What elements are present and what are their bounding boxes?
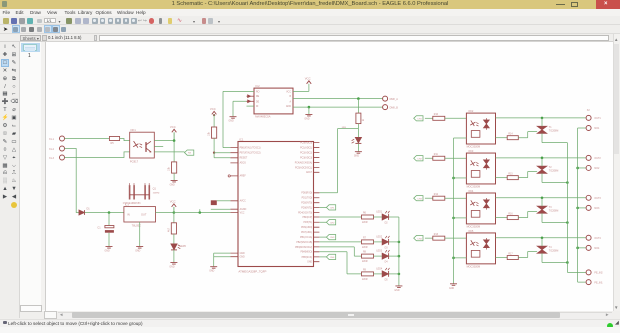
svg-text:C1: C1 xyxy=(97,226,101,229)
wire OK1 emitter to flag xyxy=(154,150,184,152)
svg-text:RO: RO xyxy=(256,91,260,93)
wire X1-3 to OK1 cathode xyxy=(65,151,130,157)
svg-text:A: A xyxy=(289,100,291,103)
wire NO pad row 4 xyxy=(578,246,586,248)
wire R10 to OK2 xyxy=(445,117,467,119)
menu bar xyxy=(0,9,620,17)
svg-text:OK3: OK3 xyxy=(468,148,474,152)
wire OK2 MT to pad xyxy=(496,116,587,118)
svg-text:PB7(XTAL2/TOSC2): PB7(XTAL2/TOSC2) xyxy=(240,151,261,154)
svg-text:GND: GND xyxy=(354,155,359,157)
opto-triac OK4 xyxy=(466,193,495,224)
svg-text:OUT: OUT xyxy=(141,212,147,216)
wire R14 to ground xyxy=(173,173,175,180)
wire IC2 GND down xyxy=(308,107,310,114)
junction VCC rail xyxy=(173,211,176,214)
pin stub IC2 DI xyxy=(247,105,255,107)
wire OK3 MT to pad xyxy=(496,156,587,158)
supply VCC at R16 pull-up xyxy=(212,111,217,114)
resistor R11 xyxy=(433,156,445,160)
wire OK5 pin4 to R17 xyxy=(496,256,508,258)
svg-text:DE: DE xyxy=(256,101,260,103)
opto-triac OK5 xyxy=(466,232,495,263)
diode D1 xyxy=(79,210,84,215)
wire LED5 to ground xyxy=(173,249,175,261)
wire IC1 to R7 xyxy=(319,240,361,242)
svg-text:VCC: VCC xyxy=(305,76,311,80)
svg-text:CH3: CH3 xyxy=(330,237,335,239)
sheets panel bottom box xyxy=(20,305,42,313)
svg-text:GND: GND xyxy=(307,261,312,263)
LED LED6 xyxy=(355,137,361,142)
svg-text:PD3(INT1): PD3(INT1) xyxy=(301,207,312,209)
svg-text:R16: R16 xyxy=(508,213,513,215)
svg-text:R14: R14 xyxy=(508,133,513,135)
pad OUT3 xyxy=(586,195,591,200)
pad X1-1 xyxy=(60,136,65,141)
junction NO bus xyxy=(576,246,579,249)
wire flag to R10 xyxy=(425,117,433,119)
svg-text:CH2: CH2 xyxy=(417,158,422,160)
wire IC2 DE to ground xyxy=(233,101,247,116)
LED LED2 xyxy=(382,239,388,245)
wire R6 to LED1 xyxy=(374,216,382,218)
svg-text:PD6(AIN0): PD6(AIN0) xyxy=(301,226,312,229)
opto-triac OK3 xyxy=(466,153,495,184)
wire OK3 pin2 to gnd bus xyxy=(454,176,467,178)
wire IC1 pin to flag CH1 xyxy=(319,206,326,208)
wire R12 to OK4 xyxy=(445,197,467,199)
junction at IC3 input xyxy=(108,211,111,214)
svg-text:PC4(ADC4/SDA): PC4(ADC4/SDA) xyxy=(295,161,313,164)
svg-text:GND: GND xyxy=(169,266,174,268)
resistor R5 xyxy=(109,136,119,140)
wire T2 MT1 down xyxy=(542,173,567,182)
wire flag to R13 xyxy=(425,237,433,239)
svg-text:CH3: CH3 xyxy=(417,198,422,200)
wire T3 MT1 down xyxy=(542,213,567,222)
header row: sheets combo + coordinate bar xyxy=(0,34,620,42)
svg-text:220R: 220R xyxy=(362,246,368,248)
wire OK2 pin2 to gnd bus xyxy=(454,137,467,139)
wire R14 to T1 gate xyxy=(518,131,537,137)
wire R17 to LED6 node xyxy=(357,123,359,137)
svg-text:GND: GND xyxy=(240,252,245,254)
net flag CH1 input xyxy=(414,115,423,120)
ground below LED5 xyxy=(170,262,177,264)
svg-text:PB0(ICP): PB0(ICP) xyxy=(302,216,312,218)
junction triac line xyxy=(541,236,544,239)
wire RX node to IC1 RXD xyxy=(319,128,358,192)
pad NO3 xyxy=(586,205,591,210)
wire VCC node down to R14 xyxy=(173,140,175,161)
wire OK3 pin4 to R15 xyxy=(496,176,508,178)
wire T4 MT1 down xyxy=(542,253,567,262)
pin stub IC2 RE xyxy=(247,95,255,97)
wire IC1 to R6 xyxy=(319,216,361,218)
triac T1 xyxy=(537,126,547,133)
svg-text:T3: T3 xyxy=(549,206,552,209)
junction gnd bus xyxy=(452,176,455,179)
wire OK4 pin4 to R16 xyxy=(496,216,508,218)
ground below LED6 xyxy=(355,151,362,153)
wire C1 to ground xyxy=(108,232,110,246)
svg-text:AREF: AREF xyxy=(240,174,247,177)
wire X1-2 down to D1 xyxy=(65,148,79,212)
pad DMX B xyxy=(383,104,388,109)
sheet 1 selected thumbnail xyxy=(21,43,41,53)
svg-text:PD2(INT0): PD2(INT0) xyxy=(301,202,312,204)
net flag CH4 input xyxy=(414,235,423,240)
svg-text:T2: T2 xyxy=(549,166,552,169)
pad NO1 xyxy=(586,125,591,130)
svg-text:LED3: LED3 xyxy=(376,250,382,252)
pin stub OK1 base xyxy=(154,145,163,147)
svg-text:OUT4: OUT4 xyxy=(594,236,601,239)
pin mark RE xyxy=(248,94,251,97)
resistor R6 xyxy=(362,215,374,219)
net flag RX xyxy=(185,150,194,155)
resistor R15 xyxy=(507,175,518,179)
wire OK5 MT to pad xyxy=(496,236,587,238)
wire D1 to IC3 IN xyxy=(85,211,124,213)
svg-text:GND: GND xyxy=(394,289,399,291)
pad PE_IN2 xyxy=(586,269,591,274)
svg-text:PD7(AIN1): PD7(AIN1) xyxy=(301,231,312,234)
junction IC2 GND xyxy=(308,105,311,108)
svg-text:D1: D1 xyxy=(87,207,91,210)
svg-text:MOC3020M: MOC3020M xyxy=(467,145,480,148)
svg-text:R12: R12 xyxy=(434,193,439,195)
resistor R16 xyxy=(507,215,518,219)
svg-text:VCC: VCC xyxy=(170,199,176,203)
wire IC1 GND pins xyxy=(214,253,231,266)
wire R16 down to RESET xyxy=(213,138,215,153)
svg-text:GND: GND xyxy=(286,106,291,108)
ground below R14 xyxy=(171,180,178,182)
resistor R17 xyxy=(507,255,518,259)
IC1 left pin stubs xyxy=(230,147,238,256)
svg-text:B: B xyxy=(289,96,291,98)
svg-text:IC1: IC1 xyxy=(239,137,244,141)
wire C2 to AGND pin xyxy=(211,208,231,210)
wire R13 to OK5 xyxy=(445,237,467,239)
svg-text:RX: RX xyxy=(188,152,192,154)
status bar xyxy=(0,319,620,328)
svg-text:X1-2: X1-2 xyxy=(49,148,55,150)
svg-text:CH4: CH4 xyxy=(330,257,335,259)
vertical scrollbar xyxy=(613,34,620,312)
svg-text:MOC3020M: MOC3020M xyxy=(467,185,480,188)
junction MT1 bus xyxy=(566,221,569,224)
svg-text:R17: R17 xyxy=(508,253,513,255)
ground below C1 xyxy=(106,246,113,248)
supply VCC at OK1 xyxy=(172,129,177,132)
wire IC2 B to pad xyxy=(293,97,382,99)
junction LED bus xyxy=(398,272,401,275)
svg-text:TIC206M: TIC206M xyxy=(549,250,559,252)
junction MT1 bus xyxy=(566,261,569,264)
svg-text:TIC206M: TIC206M xyxy=(549,130,559,132)
wire LED4 to LED bus xyxy=(389,272,399,274)
close button xyxy=(596,0,620,9)
IC1 right pin stubs xyxy=(314,142,320,261)
svg-text:IN: IN xyxy=(127,212,130,216)
svg-text:PC2(ADC2): PC2(ADC2) xyxy=(300,151,312,154)
resistor R15 xyxy=(171,222,176,233)
wire OK5 pin2 to gnd bus xyxy=(454,256,467,258)
svg-text:R8: R8 xyxy=(363,251,367,253)
resistor R8 xyxy=(362,254,374,258)
ground below IC1 xyxy=(210,266,217,268)
node RESET red dot xyxy=(213,151,215,153)
resistor R13 xyxy=(433,236,445,240)
svg-text:D2: D2 xyxy=(385,222,389,224)
wire R5 to OK1 anode xyxy=(120,138,130,140)
svg-text:16MHz: 16MHz xyxy=(153,192,160,194)
supply VCC at IC3 output xyxy=(172,203,177,206)
triac T4 xyxy=(537,246,547,253)
pad OUT4 xyxy=(586,235,591,240)
RS-485 transceiver IC2 xyxy=(254,88,293,114)
svg-text:LED4: LED4 xyxy=(376,268,382,270)
resistor R7 xyxy=(362,239,374,243)
capacitor C1 xyxy=(105,225,114,227)
svg-text:10k: 10k xyxy=(208,131,211,136)
resistor R17 xyxy=(356,113,361,124)
wire LED1 to LED bus xyxy=(389,216,399,218)
svg-text:R9: R9 xyxy=(363,269,367,271)
svg-text:RESET: RESET xyxy=(240,157,248,159)
wire OK4 MT to pad xyxy=(496,196,587,198)
pin mark DE xyxy=(248,99,251,102)
wire R8 to LED3 xyxy=(374,255,382,257)
LED LED4 xyxy=(382,271,388,277)
wire R9 to LED4 xyxy=(374,272,382,274)
wire IC2 RO to IC1 PB6 xyxy=(223,91,254,147)
svg-text:GND: GND xyxy=(170,184,175,186)
svg-text:PC5(ADC5/SCL): PC5(ADC5/SCL) xyxy=(295,166,312,169)
svg-text:R6: R6 xyxy=(363,212,367,214)
svg-text:PB6(XTAL1/TOSC1): PB6(XTAL1/TOSC1) xyxy=(240,146,261,149)
wire VCC junction down to R15 xyxy=(173,212,175,222)
wire VCC to R16 xyxy=(213,114,215,127)
svg-text:DMX_B: DMX_B xyxy=(390,106,399,109)
junction triac line xyxy=(541,196,544,199)
wire IC3 gnd pin xyxy=(139,222,141,246)
pad OUT1 xyxy=(586,115,591,120)
net flag CH3 input xyxy=(414,195,423,200)
svg-text:D4: D4 xyxy=(385,261,389,263)
svg-text:CH1: CH1 xyxy=(417,118,422,120)
junction NO bus xyxy=(576,166,579,169)
wire opto ground bus xyxy=(453,138,455,284)
svg-text:PD0(RXD): PD0(RXD) xyxy=(301,192,312,194)
wire OK4 pin2 to gnd bus xyxy=(454,216,467,218)
svg-text:ADC6: ADC6 xyxy=(240,161,247,164)
pad OUT2 xyxy=(586,155,591,160)
wire junction down to C1 xyxy=(108,212,110,225)
svg-text:220R: 220R xyxy=(362,261,368,263)
pin stub IC2 DE xyxy=(247,100,255,102)
svg-text:NO1: NO1 xyxy=(594,127,600,130)
svg-text:CH4: CH4 xyxy=(417,238,422,240)
svg-text:PE_IN1: PE_IN1 xyxy=(594,281,603,284)
svg-text:GND: GND xyxy=(135,250,140,252)
LED LED5 xyxy=(171,244,177,250)
wire LED2 to LED bus xyxy=(389,240,399,242)
wire R16 to T3 gate xyxy=(518,211,537,217)
LED LED3 xyxy=(382,253,388,259)
svg-text:OK1: OK1 xyxy=(130,127,136,131)
wire NO common bus xyxy=(578,128,586,282)
svg-text:10k: 10k xyxy=(168,166,171,171)
wire IC2 A to pad xyxy=(293,106,382,108)
svg-text:IC3: IC3 xyxy=(125,202,130,206)
svg-text:1k: 1k xyxy=(362,120,365,122)
svg-text:CH2: CH2 xyxy=(330,222,335,224)
svg-text:PD5(T1): PD5(T1) xyxy=(304,222,313,224)
wire IC1 to R9 xyxy=(319,251,361,273)
svg-text:OUT1: OUT1 xyxy=(594,117,601,120)
svg-text:VCC: VCC xyxy=(170,124,176,128)
wire T1 MT1 down xyxy=(542,133,567,142)
svg-text:VCC: VCC xyxy=(286,91,291,93)
svg-text:NO2: NO2 xyxy=(594,167,600,170)
wire LED3 to LED bus xyxy=(389,255,399,257)
ground below IC2 right xyxy=(305,114,312,116)
net flag CH4 xyxy=(326,254,335,259)
net flag CH2 input xyxy=(414,155,423,160)
junction LED bus xyxy=(398,240,401,243)
svg-text:4k7: 4k7 xyxy=(167,227,170,232)
resistor R14 xyxy=(507,135,518,139)
net flag CH2 xyxy=(326,219,335,224)
resonator Q1 xyxy=(129,185,131,199)
junction NO bus xyxy=(576,206,579,209)
svg-text:NO4: NO4 xyxy=(594,247,600,250)
svg-text:PC0(ADC0): PC0(ADC0) xyxy=(300,141,312,144)
svg-text:AGND: AGND xyxy=(240,208,247,211)
ground below IC3 xyxy=(136,246,143,248)
junction on B line xyxy=(357,97,360,100)
svg-text:PB3(MOSI/OC2): PB3(MOSI/OC2) xyxy=(295,246,312,248)
svg-text:VCC: VCC xyxy=(240,212,245,214)
svg-text:R7: R7 xyxy=(363,237,367,239)
junction VCC at C2 xyxy=(199,211,202,214)
title bar xyxy=(0,0,620,9)
LED LED1 xyxy=(382,214,388,220)
svg-text:PC817: PC817 xyxy=(130,159,139,163)
svg-text:ADC7: ADC7 xyxy=(306,171,313,174)
wire LED6 to ground xyxy=(357,143,359,151)
svg-text:ATMEGA328P_TQFP: ATMEGA328P_TQFP xyxy=(238,269,266,273)
svg-text:GND: GND xyxy=(449,287,454,289)
junction triac line xyxy=(541,116,544,119)
svg-text:220R: 220R xyxy=(362,221,368,223)
svg-text:220R: 220R xyxy=(362,278,368,280)
junction MT1 bus xyxy=(566,181,569,184)
wire NO pad row 1 xyxy=(578,127,586,129)
svg-text:PC1(ADC1): PC1(ADC1) xyxy=(300,146,312,149)
wire IC1 pin to flag CH3 xyxy=(319,236,326,238)
toolbar row 2 xyxy=(0,25,620,34)
junction triac line xyxy=(541,156,544,159)
triac T2 xyxy=(537,166,547,173)
svg-text:GND: GND xyxy=(105,250,110,252)
svg-text:MOC3020M: MOC3020M xyxy=(467,265,480,268)
net flag CH3 xyxy=(326,234,335,239)
svg-text:PB4(MISO): PB4(MISO) xyxy=(300,251,312,253)
wire junction to R17 xyxy=(357,98,359,113)
wire NO pad row 2 xyxy=(578,166,586,168)
svg-text:TIC206M: TIC206M xyxy=(549,210,559,212)
svg-text:MAX485CSA: MAX485CSA xyxy=(255,114,271,118)
wire R7 to LED2 xyxy=(374,240,382,242)
svg-text:R13: R13 xyxy=(434,233,439,235)
ground below LED bus xyxy=(395,285,402,287)
resistor R9 xyxy=(362,271,374,275)
svg-text:CH1: CH1 xyxy=(330,207,335,209)
svg-text:AVCC: AVCC xyxy=(240,199,247,202)
resistor R16 xyxy=(212,127,217,138)
svg-text:PD4(XCK/T0): PD4(XCK/T0) xyxy=(298,212,312,214)
svg-text:R5: R5 xyxy=(111,142,115,145)
ground below IC2 left xyxy=(230,116,237,118)
opto-triac OK2 xyxy=(466,113,495,144)
svg-text:VCC: VCC xyxy=(210,106,216,110)
svg-text:OK4: OK4 xyxy=(468,188,474,192)
svg-text:X1-3: X1-3 xyxy=(49,157,55,159)
optocoupler OK1 xyxy=(130,132,155,158)
pad DMX A xyxy=(383,96,388,101)
svg-text:PC3(ADC3): PC3(ADC3) xyxy=(300,156,312,159)
svg-text:OK2: OK2 xyxy=(468,108,474,112)
wire X1-1 to R5 xyxy=(65,137,110,139)
svg-text:R15: R15 xyxy=(508,173,513,175)
svg-text:X1-1: X1-1 xyxy=(49,138,55,140)
svg-text:PB2(SS/OC1B): PB2(SS/OC1B) xyxy=(296,241,312,243)
svg-text:GND: GND xyxy=(229,120,234,122)
wire NO pad row 3 xyxy=(578,206,586,208)
toolbar row 1 xyxy=(0,16,620,25)
junction gnd bus xyxy=(452,216,455,219)
pad X1-2 xyxy=(60,146,65,151)
wire IC1 pin to flag CH4 xyxy=(319,255,326,257)
pad NO4 xyxy=(586,245,591,250)
svg-text:OK5: OK5 xyxy=(468,228,474,232)
wire flag to R11 xyxy=(425,157,433,159)
svg-text:R11: R11 xyxy=(434,153,439,155)
resistor R12 xyxy=(433,196,445,200)
svg-text:LED5: LED5 xyxy=(180,244,187,247)
svg-text:D5: D5 xyxy=(385,279,389,281)
svg-text:NO3: NO3 xyxy=(594,207,600,210)
svg-text:IC2: IC2 xyxy=(255,83,260,87)
svg-text:T1: T1 xyxy=(549,126,552,129)
svg-text:RE: RE xyxy=(256,96,260,98)
svg-text:PD1(TXD): PD1(TXD) xyxy=(302,197,313,199)
wire C2 to AVCC pin xyxy=(217,199,231,201)
wire IC1 to R8 xyxy=(319,246,361,255)
junction at OK1 collector xyxy=(173,139,176,142)
wire IC1 pin to flag CH2 xyxy=(319,221,326,223)
wire R11 to OK3 xyxy=(445,157,467,159)
junction gnd bus xyxy=(452,256,455,259)
svg-text:X2: X2 xyxy=(587,109,591,112)
wire R17 to T4 gate xyxy=(518,251,537,257)
capacitor C2 at AVCC xyxy=(211,200,217,205)
